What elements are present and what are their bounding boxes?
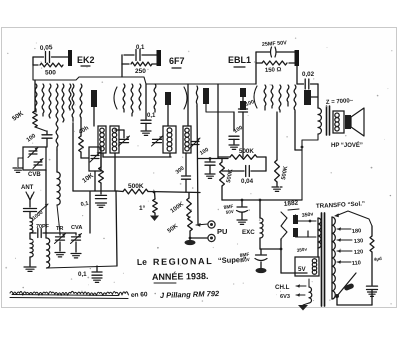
tap 130 bbox=[337, 239, 352, 241]
wire EBL1 col bbox=[217, 84, 219, 158]
rectifier 1882 tube bbox=[281, 212, 287, 239]
tube EK2 electrodes bbox=[35, 84, 37, 112]
wire AVC bus bbox=[73, 190, 117, 192]
resistor 250 bbox=[121, 55, 123, 64]
coil oscillator bbox=[57, 172, 60, 205]
transformer core bbox=[321, 213, 323, 306]
tube 6F7 top cap bbox=[157, 50, 162, 66]
output transformer T2 primary bbox=[318, 108, 321, 134]
svg-text:0,05: 0,05 bbox=[40, 44, 53, 52]
5V winding box bbox=[295, 257, 319, 276]
fuse bbox=[343, 283, 354, 291]
tap 120 bbox=[337, 250, 352, 252]
primary top tap bbox=[334, 213, 339, 217]
IF T1 trimmer bbox=[120, 138, 129, 140]
svg-text:PU: PU bbox=[217, 227, 227, 236]
wire ground bus bottom bbox=[47, 266, 118, 268]
svg-text:REGIONAL: REGIONAL bbox=[153, 256, 213, 267]
svg-text:1°: 1° bbox=[139, 204, 146, 212]
wire EBL1 cathode bbox=[255, 52, 257, 84]
svg-text:EK2: EK2 bbox=[77, 55, 95, 65]
capacitor 1000 antenna bbox=[24, 208, 37, 210]
svg-text:180: 180 bbox=[352, 228, 362, 235]
tube EK2 top cap bbox=[68, 50, 72, 66]
svg-text:Le: Le bbox=[137, 257, 148, 267]
resistor 500K c vertical bbox=[221, 159, 223, 163]
band switch box CVB bbox=[23, 147, 46, 170]
svg-text:130: 130 bbox=[354, 238, 364, 245]
resistor 150 ohm bbox=[262, 61, 287, 65]
svg-text:HP “JOVÉ”: HP “JOVÉ” bbox=[331, 141, 363, 149]
wire pot to PU bbox=[189, 237, 192, 240]
coil L2 antenna bbox=[30, 239, 33, 257]
capacitor 0,04 bbox=[222, 170, 244, 172]
HT secondary winding bbox=[317, 218, 319, 248]
svg-text:CVA: CVA bbox=[71, 225, 82, 231]
ground 6V3 bbox=[298, 305, 308, 311]
IF T2 trimmer left bbox=[153, 138, 162, 140]
svg-text:0,04: 0,04 bbox=[241, 178, 254, 185]
variable capacitor CVB a bbox=[29, 150, 37, 152]
speaker HP bbox=[345, 115, 351, 129]
variable capacitor CVB b bbox=[34, 161, 42, 163]
tube EBL1 envelope bbox=[254, 86, 257, 108]
svg-text:ANNÉE 1938.: ANNÉE 1938. bbox=[152, 271, 209, 282]
svg-text:0,1: 0,1 bbox=[78, 271, 87, 278]
ground CVB bbox=[18, 157, 23, 159]
tube 6F7 anode bbox=[165, 92, 171, 105]
tube EBL1 anodes bbox=[240, 88, 246, 97]
wire HT bus bbox=[222, 199, 302, 201]
potentiometer wiper arrow bbox=[196, 224, 208, 225]
svg-text:5V: 5V bbox=[298, 266, 306, 273]
IF transformer T1 primary bbox=[98, 126, 106, 153]
IF transformer T2 primary bbox=[163, 126, 176, 153]
wire 6F7 grid bbox=[121, 64, 123, 77]
resistor R1 500 bbox=[32, 57, 34, 65]
tube EBL1 electrodes bbox=[264, 85, 266, 110]
svg-text:500K: 500K bbox=[128, 183, 144, 190]
wire EBL1 screen bbox=[294, 112, 296, 150]
wire cathode return long bbox=[114, 153, 116, 191]
svg-text:110: 110 bbox=[352, 260, 362, 267]
ground antenna coil bbox=[24, 266, 36, 268]
PU terminal 1 bbox=[208, 221, 215, 228]
capacitor 8MF a bbox=[241, 199, 244, 202]
tube EK2 anode bbox=[91, 90, 97, 107]
wire screen line bbox=[72, 84, 74, 120]
wire mains bottom bbox=[336, 296, 338, 305]
voltage selector arm bbox=[337, 273, 356, 296]
svg-text:500K: 500K bbox=[239, 148, 254, 155]
wire IFT1 bottoms bbox=[102, 153, 104, 157]
output anode bbox=[304, 90, 311, 105]
svg-text:0,1: 0,1 bbox=[147, 113, 156, 119]
wire CVB down bbox=[45, 170, 47, 232]
tube 6F7 envelope bbox=[114, 87, 117, 109]
fuse resistor right bbox=[371, 226, 373, 236]
wire anode to IFT1 bbox=[93, 107, 95, 126]
IF transformer T2 secondary bbox=[183, 126, 191, 153]
tube EBL1 top cap bbox=[295, 50, 300, 66]
wire 6F7 cathode long bbox=[196, 86, 197, 106]
svg-text:150 Ω: 150 Ω bbox=[265, 67, 282, 74]
ground 1M bbox=[150, 216, 159, 222]
svg-text:6F7: 6F7 bbox=[169, 56, 185, 66]
svg-text:EXC: EXC bbox=[242, 229, 255, 236]
primary winding bbox=[331, 217, 333, 299]
wire CVA up bbox=[89, 192, 91, 233]
coil L1 antenna bbox=[30, 218, 33, 233]
scan speckles bbox=[180, 183, 182, 185]
svg-text:CH.L: CH.L bbox=[275, 284, 290, 291]
PU terminal 2 bbox=[208, 234, 215, 241]
svg-text:120: 120 bbox=[354, 249, 364, 256]
svg-text:CVB: CVB bbox=[28, 172, 41, 178]
oscillator trimmer box bbox=[89, 147, 101, 171]
svg-text:ANT: ANT bbox=[21, 185, 34, 191]
svg-text:250: 250 bbox=[135, 68, 146, 75]
rectifier anodes bbox=[293, 215, 298, 224]
svg-text:500: 500 bbox=[45, 70, 56, 77]
svg-text:en 60: en 60 bbox=[131, 291, 148, 299]
ground potentiometer bbox=[189, 231, 191, 240]
svg-text:EBL1: EBL1 bbox=[228, 55, 251, 65]
svg-text:“Super”: “Super” bbox=[218, 255, 247, 265]
field coil EXC bbox=[259, 199, 262, 202]
coil L3 grid bbox=[45, 232, 47, 238]
wire grid line long bbox=[56, 84, 58, 150]
svg-text:6V3: 6V3 bbox=[280, 294, 290, 300]
diode plate bbox=[203, 88, 209, 104]
IF transformer T1 secondary bbox=[110, 126, 119, 153]
tube 6F7 electrodes bbox=[123, 84, 125, 112]
wire bus top bbox=[33, 65, 256, 84]
tap 180 bbox=[337, 228, 351, 230]
tap 110 bbox=[337, 261, 351, 263]
handwritten note bottom left bbox=[10, 291, 128, 295]
resistor 500K d vertical bbox=[276, 112, 278, 160]
output transformer core bbox=[326, 106, 328, 135]
wire speaker return bbox=[302, 134, 318, 200]
IF T2 trimmer right bbox=[191, 141, 199, 143]
svg-text:0,02: 0,02 bbox=[302, 71, 315, 78]
wire IFT2 bottom bbox=[169, 153, 171, 157]
capacitor mains bbox=[367, 285, 378, 287]
output transformer secondary bbox=[333, 111, 344, 133]
